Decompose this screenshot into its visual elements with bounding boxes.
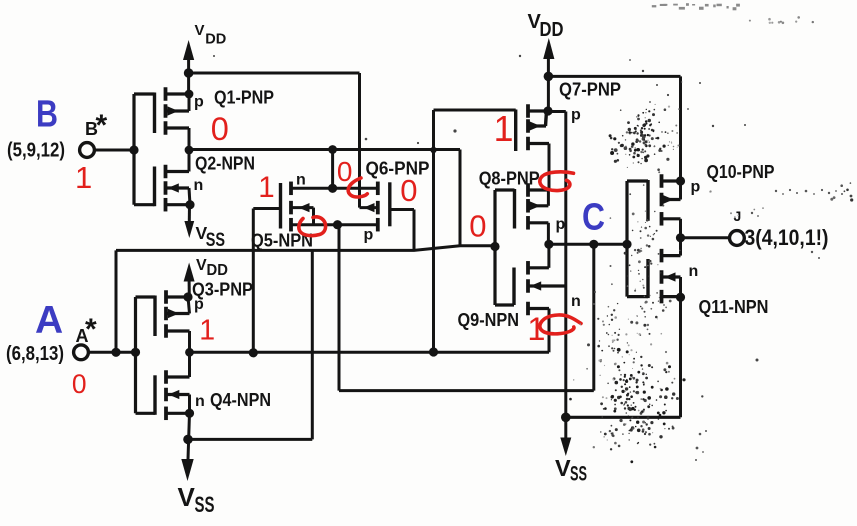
- svg-text:n: n: [296, 172, 306, 189]
- svg-text:0: 0: [211, 111, 229, 147]
- svg-text:J: J: [734, 208, 742, 224]
- svg-text:DD: DD: [205, 31, 226, 48]
- svg-text:1: 1: [494, 109, 514, 149]
- svg-text:SS: SS: [195, 492, 215, 517]
- svg-text:p: p: [194, 94, 204, 111]
- svg-text:Q7-PNP: Q7-PNP: [559, 80, 621, 100]
- svg-text:1: 1: [258, 171, 274, 204]
- svg-text:C: C: [582, 196, 605, 239]
- svg-text:B: B: [36, 93, 58, 136]
- svg-text:p: p: [571, 106, 581, 123]
- svg-text:(5,9,12): (5,9,12): [7, 140, 65, 162]
- svg-text:Q8-PNP: Q8-PNP: [479, 168, 540, 188]
- svg-text:Q6-PNP: Q6-PNP: [366, 159, 430, 179]
- svg-text:0: 0: [469, 209, 486, 244]
- svg-text:V: V: [195, 22, 205, 39]
- svg-text:n: n: [194, 177, 204, 194]
- svg-text:p: p: [364, 227, 374, 244]
- svg-text:Q9-NPN: Q9-NPN: [458, 310, 520, 330]
- svg-text:(6,8,13): (6,8,13): [6, 343, 64, 365]
- svg-text:SS: SS: [570, 463, 587, 486]
- svg-text:3(4,10,1!): 3(4,10,1!): [745, 225, 829, 250]
- svg-text:0: 0: [400, 173, 417, 208]
- svg-text:DD: DD: [207, 262, 228, 279]
- svg-text:n: n: [195, 393, 205, 410]
- svg-text:1: 1: [75, 160, 92, 195]
- svg-text:Q1-PNP: Q1-PNP: [214, 88, 274, 108]
- svg-text:p: p: [194, 296, 204, 313]
- svg-text:*: *: [96, 109, 108, 142]
- svg-text:V: V: [178, 482, 196, 512]
- svg-text:Q11-NPN: Q11-NPN: [699, 297, 769, 317]
- svg-text:Q2-NPN: Q2-NPN: [195, 153, 255, 173]
- svg-text:SS: SS: [206, 230, 225, 251]
- svg-text:V: V: [196, 257, 207, 274]
- svg-text:n: n: [689, 263, 699, 280]
- svg-text:DD: DD: [540, 19, 564, 41]
- svg-text:p: p: [691, 179, 701, 196]
- svg-text:V: V: [555, 455, 571, 481]
- svg-text:1: 1: [199, 315, 215, 347]
- svg-text:Q4-NPN: Q4-NPN: [210, 390, 271, 410]
- svg-text:*: *: [85, 313, 97, 346]
- svg-text:p: p: [556, 216, 566, 233]
- svg-text:0: 0: [72, 369, 87, 399]
- svg-text:Q10-PNP: Q10-PNP: [707, 162, 775, 182]
- svg-text:n: n: [571, 293, 581, 310]
- svg-text:A: A: [35, 299, 63, 342]
